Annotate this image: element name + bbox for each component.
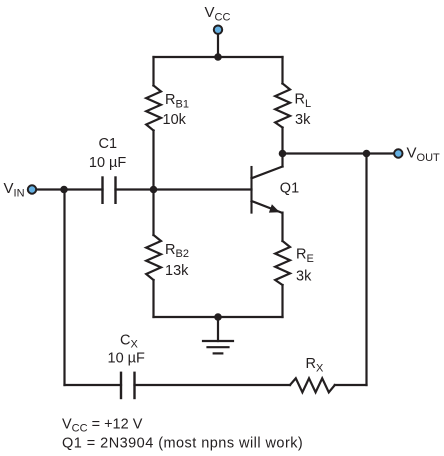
svg-text:VIN: VIN xyxy=(4,180,25,199)
svg-text:10 µF: 10 µF xyxy=(108,351,146,367)
svg-text:C1: C1 xyxy=(99,136,118,152)
svg-text:RL: RL xyxy=(295,92,312,110)
svg-text:Q1 = 2N3904 (most npns will wo: Q1 = 2N3904 (most npns will work) xyxy=(62,435,303,451)
svg-text:RX: RX xyxy=(306,356,324,374)
svg-text:VOUT: VOUT xyxy=(407,145,441,164)
svg-text:13k: 13k xyxy=(165,263,189,279)
svg-text:VCC = +12 V: VCC = +12 V xyxy=(62,416,143,434)
svg-text:RB1: RB1 xyxy=(165,92,189,110)
svg-text:10k: 10k xyxy=(163,112,187,128)
svg-text:3k: 3k xyxy=(296,269,312,285)
svg-text:Q1: Q1 xyxy=(280,181,299,197)
svg-text:CX: CX xyxy=(120,332,138,350)
svg-text:RB2: RB2 xyxy=(165,242,189,260)
svg-text:3k: 3k xyxy=(295,112,311,128)
svg-text:10 µF: 10 µF xyxy=(89,155,127,171)
svg-text:VCC: VCC xyxy=(205,4,231,23)
svg-text:RE: RE xyxy=(296,247,314,265)
